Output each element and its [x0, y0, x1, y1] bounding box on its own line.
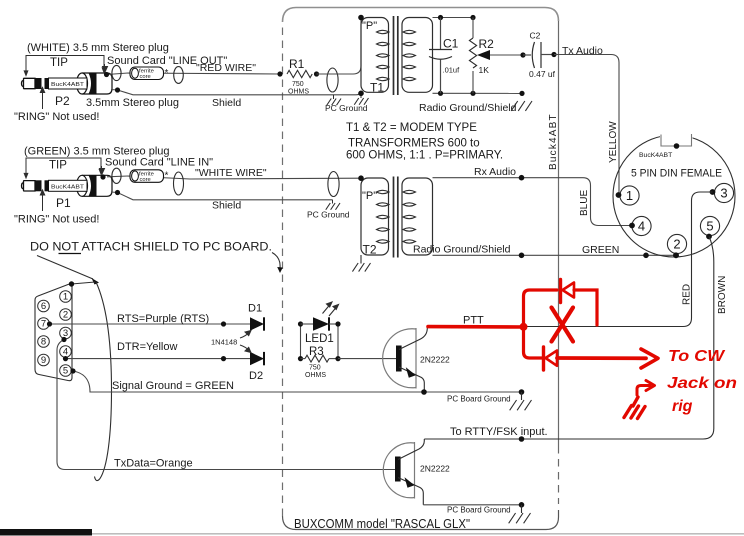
ground red CW jack	[624, 397, 645, 419]
svg-text:1K: 1K	[479, 65, 490, 75]
svg-text:C1: C1	[443, 37, 459, 51]
wire base Q1	[338, 358, 396, 360]
ground PC Ground at T1 primary	[360, 93, 362, 98]
wire cable arc	[95, 282, 112, 481]
node loop ellipse 3 crossing pair	[327, 68, 338, 92]
wire T1 secondary rails	[433, 18, 523, 94]
wire P2 shield	[111, 90, 361, 95]
ground PC Ground at T1 (left stub)	[333, 95, 335, 99]
red X cross-out	[552, 308, 574, 342]
node loop ellipse 1 P2	[112, 65, 121, 80]
svg-text:"RING" Not used!: "RING" Not used!	[14, 214, 99, 226]
ground PC Board Ground Q1	[519, 389, 525, 395]
ferrite core P1	[130, 170, 169, 183]
svg-text:"RING" Not used!: "RING" Not used!	[14, 111, 99, 123]
svg-text:R3: R3	[309, 346, 324, 358]
svg-text:0.47 uf: 0.47 uf	[529, 69, 556, 79]
label TIP bracket P2	[24, 56, 106, 76]
transformer T1	[361, 16, 433, 95]
svg-text:4: 4	[638, 219, 645, 234]
ground Radio Ground/Shield top	[511, 101, 532, 111]
wire red PTT overlay	[428, 325, 524, 329]
svg-text:*: *	[165, 68, 169, 79]
wire PTT line to RED	[427, 192, 712, 327]
wire BLUE to pin 4	[583, 178, 632, 226]
node loop ellipse 3 P1 pair	[328, 172, 339, 197]
wire RTS	[50, 323, 251, 325]
svg-text:RTS=Purple (RTS): RTS=Purple (RTS)	[117, 313, 209, 325]
svg-text:BucK4ABT: BucK4ABT	[51, 184, 85, 190]
svg-text:3.5mm Stereo plug: 3.5mm Stereo plug	[86, 97, 179, 109]
potentiometer R2	[469, 18, 476, 94]
svg-text:5: 5	[706, 219, 713, 234]
svg-text:2: 2	[63, 310, 68, 321]
diode D2	[250, 352, 264, 365]
svg-text:8: 8	[41, 337, 46, 348]
svg-text:"RED WIRE": "RED WIRE"	[196, 62, 256, 74]
label RING not used P2	[40, 88, 44, 110]
svg-text:To CW: To CW	[668, 348, 726, 365]
svg-text:.01uf: .01uf	[443, 66, 461, 75]
svg-text:OHMS: OHMS	[288, 89, 309, 96]
wire Signal Ground rail	[73, 371, 522, 392]
node DB9 pin 1	[60, 291, 72, 303]
svg-text:1N4148: 1N4148	[211, 338, 237, 347]
capacitor C1	[429, 18, 452, 94]
svg-text:750: 750	[292, 81, 304, 88]
ground PC Ground at T2	[332, 200, 334, 204]
wire leader to shield arc	[37, 256, 93, 280]
wire Tx Audio to DIN pin1 (YELLOW)	[554, 55, 619, 196]
node DIN pin 2	[667, 234, 686, 253]
wire leader to box edge	[272, 253, 280, 269]
svg-text:Jack on: Jack on	[667, 375, 737, 392]
svg-text:D1: D1	[248, 303, 262, 315]
connector 5 PIN DIN FEMALE	[613, 135, 735, 257]
svg-text:(WHITE) 3.5 mm Stereo plug: (WHITE) 3.5 mm Stereo plug	[27, 42, 169, 54]
svg-text:6: 6	[41, 301, 46, 312]
wire red loop down	[524, 327, 543, 358]
svg-text:5 PIN DIN FEMALE: 5 PIN DIN FEMALE	[631, 168, 722, 180]
svg-text:BucK4ABT: BucK4ABT	[51, 82, 85, 88]
svg-text:600 OHMS, 1:1 . P=PRIMARY.: 600 OHMS, 1:1 . P=PRIMARY.	[346, 150, 503, 162]
svg-text:2: 2	[673, 237, 680, 252]
svg-text:PTT: PTT	[463, 315, 484, 327]
resistor R3	[301, 358, 306, 360]
node loop ellipse 1 P1	[112, 168, 121, 183]
diode red bottom to CW jack	[542, 347, 545, 370]
svg-text:T1 & T2 = MODEM TYPE: T1 & T2 = MODEM TYPE	[346, 122, 477, 134]
node DIN pin 5	[700, 216, 719, 235]
wire diode junction bus	[300, 324, 302, 359]
ferrite core P2	[130, 67, 169, 80]
node DIN pin 3	[714, 183, 733, 202]
node DB9 pin 3	[60, 327, 72, 339]
LED LED1	[301, 323, 314, 325]
node DB9 pin 9	[38, 354, 50, 366]
svg-text:P1: P1	[56, 196, 71, 210]
svg-text:R2: R2	[479, 37, 495, 51]
wire Rx Audio	[433, 177, 584, 179]
label Sound Card LINE OUT	[103, 64, 108, 72]
diode D1	[250, 317, 264, 330]
node loop ellipse 2 P1	[174, 172, 184, 195]
svg-text:PC Board Ground: PC Board Ground	[447, 395, 511, 404]
svg-text:Signal Ground = GREEN: Signal Ground = GREEN	[112, 380, 234, 392]
node loop ellipse 2 P2	[174, 67, 184, 84]
wire red loop up	[524, 290, 558, 327]
wire R1 to T1 primary	[317, 18, 362, 75]
node red junction	[520, 323, 528, 331]
diode red top (crossed out)	[559, 280, 562, 303]
svg-text:9: 9	[41, 355, 46, 366]
svg-text:DTR=Yellow: DTR=Yellow	[117, 341, 177, 353]
node DIN pin 4	[632, 216, 651, 235]
svg-text:BROWN: BROWN	[717, 276, 728, 314]
svg-text:2N2222: 2N2222	[420, 355, 450, 365]
svg-text:T2: T2	[363, 243, 377, 257]
svg-text:TxData=Orange: TxData=Orange	[114, 458, 193, 470]
label Sound Card LINE IN	[100, 166, 105, 174]
svg-text:*: *	[165, 171, 169, 182]
wire P1 shield	[111, 192, 333, 200]
svg-text:TRANSFORMERS 600 to: TRANSFORMERS 600 to	[348, 138, 480, 150]
svg-text:Radio Ground/Shield: Radio Ground/Shield	[413, 244, 511, 256]
node DIN pin 1	[620, 186, 639, 205]
svg-text:750: 750	[309, 365, 321, 372]
svg-text:7: 7	[41, 319, 46, 330]
node DB9 pin 5	[60, 365, 72, 377]
svg-text:BucK4ABT: BucK4ABT	[639, 152, 672, 159]
svg-text:D2: D2	[249, 370, 263, 382]
svg-text:Tx Audio: Tx Audio	[562, 45, 603, 57]
transformer T2	[361, 177, 433, 258]
svg-text:To RTTY/FSK input.: To RTTY/FSK input.	[450, 426, 548, 438]
svg-text:Buck4ABT: Buck4ABT	[548, 113, 559, 170]
node DB9 pin 2	[60, 309, 72, 321]
svg-text:Rx Audio: Rx Audio	[474, 166, 516, 178]
svg-text:"WHITE WIRE": "WHITE WIRE"	[195, 167, 267, 179]
ground T2 primary	[360, 255, 362, 264]
wire PC-board border box	[283, 8, 559, 530]
wire Q2 emitter rail	[423, 504, 521, 506]
node DB9 pin 7	[38, 318, 50, 330]
svg-text:Shield: Shield	[212, 97, 241, 109]
svg-text:Radio Ground/Shield: Radio Ground/Shield	[419, 102, 517, 114]
svg-text:LED1: LED1	[305, 333, 334, 345]
svg-text:1: 1	[63, 292, 68, 303]
label TIP bracket P1	[24, 158, 103, 178]
connector P1 3.5mm stereo plug	[22, 175, 113, 196]
svg-text:"P": "P"	[362, 190, 377, 202]
svg-text:core: core	[140, 74, 151, 80]
svg-text:GREEN: GREEN	[582, 244, 619, 256]
svg-text:PC Ground: PC Ground	[307, 210, 350, 220]
node DB9 pin 6	[38, 300, 50, 312]
svg-text:TIP: TIP	[50, 57, 68, 69]
svg-text:PC Ground: PC Ground	[325, 103, 368, 113]
svg-text:DO NOT ATTACH SHIELD TO PC BOA: DO NOT ATTACH SHIELD TO PC BOARD.	[30, 242, 272, 254]
node DB9 pin 8	[38, 336, 50, 348]
svg-text:1: 1	[626, 188, 633, 203]
decorative	[0, 533, 744, 535]
resistor R1	[287, 70, 312, 77]
wire red arrow to jack	[637, 386, 650, 396]
svg-text:BLUE: BLUE	[579, 190, 590, 216]
svg-text:"P": "P"	[362, 20, 377, 32]
svg-text:C2: C2	[530, 31, 541, 41]
svg-text:TIP: TIP	[49, 160, 67, 172]
svg-text:RED: RED	[682, 284, 693, 305]
ground PC Board Ground Q2	[519, 502, 525, 508]
svg-text:OHMS: OHMS	[305, 372, 326, 379]
wire RTTY/FSK to BROWN pin5	[424, 237, 714, 440]
transistor Q2 2N2222	[383, 442, 414, 499]
capacitor C2	[523, 42, 554, 68]
svg-text:rig: rig	[672, 398, 693, 415]
wire Radio Ground/Shield to GREEN pin2	[433, 254, 677, 256]
connector DB9 serial	[35, 284, 72, 381]
svg-text:PC Board Ground: PC Board Ground	[447, 506, 511, 515]
svg-text:core: core	[140, 177, 151, 183]
svg-text:YELLOW: YELLOW	[608, 121, 619, 163]
svg-text:3: 3	[720, 186, 727, 201]
wire DTR	[66, 358, 251, 360]
svg-text:P2: P2	[55, 94, 70, 108]
wire P1 tip (WHITE WIRE) to T2	[107, 176, 361, 179]
wire P2 tip to R1 (RED WIRE)	[107, 73, 280, 75]
node DB9 pin 4	[60, 346, 72, 358]
connector P2 3.5mm stereo plug	[22, 73, 113, 94]
svg-text:Shield: Shield	[212, 200, 241, 212]
svg-text:5: 5	[63, 366, 68, 377]
label RING not used P1	[40, 190, 44, 211]
svg-text:R1: R1	[289, 57, 305, 71]
transistor Q1 2N2222	[383, 328, 416, 389]
svg-text:BUXCOMM model "RASCAL GLX": BUXCOMM model "RASCAL GLX"	[294, 517, 470, 531]
svg-text:2N2222: 2N2222	[420, 464, 450, 474]
wire LED/R3 junction	[337, 324, 339, 359]
wire DB9 shell to cable	[72, 282, 96, 284]
svg-text:T1: T1	[370, 81, 384, 95]
wire TxData	[57, 340, 395, 470]
